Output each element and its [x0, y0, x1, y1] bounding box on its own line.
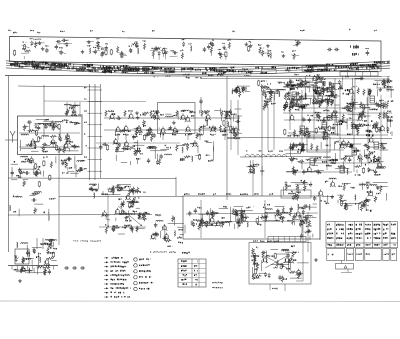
label N213 value [74, 124, 75, 125]
wire [264, 200, 266, 238]
label N399 value [301, 221, 304, 222]
wire [293, 195, 299, 197]
label N519 value [338, 166, 339, 167]
label N559 page [366, 209, 367, 210]
label N551 value [62, 172, 63, 173]
inductor L99 [370, 185, 372, 186]
resistor R193 [305, 131, 307, 138]
resistor R109 [239, 91, 241, 98]
ground G35 [359, 123, 361, 125]
label N459 value [299, 84, 300, 86]
inductor L86 [352, 102, 353, 104]
resistor R189 [289, 158, 296, 160]
wire [16, 271, 20, 273]
label N110 value [62, 64, 65, 66]
inductor L64 [241, 217, 243, 218]
wire [29, 195, 35, 197]
bus wire [200, 78, 390, 81]
page bottom edge [0, 300, 400, 303]
label N133 value [32, 66, 33, 68]
label N331 value [135, 191, 138, 193]
transistor Q15 [181, 115, 185, 119]
label N29 value [135, 46, 136, 47]
label N175 value [230, 67, 233, 69]
inductor L41 [131, 201, 133, 202]
label N205 value [83, 98, 86, 101]
wire [160, 148, 169, 150]
label N589 value [331, 162, 332, 164]
wire [337, 200, 339, 204]
label N461 value [288, 107, 291, 108]
label N258 title [73, 239, 74, 242]
wire [43, 120, 54, 122]
label N470 value [329, 99, 330, 100]
capacitor C125 [333, 111, 335, 113]
wire [390, 88, 392, 98]
label N103 value [139, 68, 140, 70]
resistor R92 [107, 188, 114, 190]
label N365 value [248, 172, 251, 173]
label N631 value [326, 224, 329, 226]
IF transformer T8 [374, 142, 379, 149]
label N542 value [332, 124, 335, 125]
diode D24 [239, 222, 241, 223]
wire [221, 115, 223, 121]
label N115 value [125, 67, 126, 69]
label N388 value [234, 214, 235, 215]
label N392 value [246, 207, 247, 208]
transistor Q6 [51, 140, 55, 144]
label N109 value [99, 66, 102, 68]
label N433 legend [111, 292, 112, 294]
label N562 value [289, 88, 292, 90]
capacitor C80 [287, 253, 289, 255]
wire [31, 150, 39, 152]
wire [321, 89, 337, 91]
bus wire [6, 66, 390, 73]
resistor R179 [376, 127, 378, 131]
resistor R62 [199, 126, 201, 133]
transistor Q63 [377, 163, 381, 167]
label N496 value [288, 135, 289, 136]
label N591 value [333, 159, 334, 161]
wire [31, 260, 33, 265]
label N280 value [189, 112, 192, 114]
label N79 value [104, 70, 105, 72]
wire rung [88, 135, 103, 137]
capacitor C101 [353, 101, 355, 103]
bus wire [6, 68, 390, 75]
wire [135, 227, 145, 229]
label N498 value [293, 158, 294, 160]
wire [59, 196, 183, 198]
inductor L90 [359, 157, 360, 159]
wire [296, 105, 303, 107]
wire [276, 253, 288, 255]
label N637 value [382, 224, 385, 226]
label N90 value [66, 67, 69, 69]
label N479 value [388, 116, 389, 118]
wire [309, 98, 311, 104]
wire [107, 195, 109, 228]
label N37 value [179, 50, 182, 51]
wire [220, 108, 222, 114]
wire [329, 83, 339, 85]
label N116 value [166, 71, 167, 73]
inductor L48 [264, 101, 266, 102]
transistor Q69 [358, 116, 362, 120]
label N247 value [36, 256, 37, 258]
label N417 value [183, 274, 184, 275]
resistor R218 [328, 116, 330, 120]
wire [301, 218, 303, 226]
label N642 value [356, 228, 357, 230]
wire [294, 214, 296, 219]
label N23 value [92, 47, 95, 48]
transistor Q9 [36, 170, 40, 174]
wire [344, 182, 351, 184]
potentiometer R25 [58, 147, 60, 154]
resistor R99 [131, 201, 133, 208]
label N215 value [67, 141, 68, 142]
inductor L55 [261, 154, 265, 157]
capacitor C75 [290, 206, 292, 208]
label N344 value [105, 224, 106, 225]
terminal block B15 [52, 63, 62, 67]
capacitor C117 [365, 156, 367, 158]
diode D53 [301, 81, 303, 82]
capacitor C149 [299, 214, 301, 216]
label N275 value [233, 134, 234, 135]
label N266 value [123, 134, 124, 135]
wire [226, 76, 228, 200]
transistor Q50 [285, 258, 289, 262]
wire [270, 249, 278, 251]
label N672 name [346, 253, 349, 254]
wire [163, 236, 168, 238]
label N393 value [236, 222, 237, 224]
transistor Q18 [116, 128, 120, 132]
resistor R114 [248, 165, 255, 167]
potentiometer R202 [344, 155, 346, 162]
wire [67, 171, 74, 173]
label N605 value [313, 103, 314, 105]
resistor R236 [357, 129, 359, 136]
transistor Q25 [211, 127, 215, 131]
label N168 value [227, 70, 228, 72]
wire [379, 149, 388, 151]
wire [299, 86, 317, 88]
label N310 value [140, 153, 141, 154]
label N630 value [387, 86, 388, 88]
wire [74, 102, 76, 116]
module divider [372, 222, 374, 248]
diode D3 [97, 45, 99, 46]
bus wire B+ [5, 76, 390, 77]
label N52 HT [349, 45, 352, 48]
inductor L34 [192, 156, 193, 158]
label N363 value [269, 92, 270, 94]
transistor Q58 [358, 155, 362, 159]
wire [287, 259, 289, 272]
label N61 value [246, 72, 247, 74]
label N532 value [325, 181, 326, 183]
wire [68, 148, 70, 152]
label N48 value [281, 51, 282, 52]
capacitor C145 [323, 82, 325, 84]
capacitor C99 [379, 128, 381, 130]
label N581 value [368, 131, 371, 133]
label N400 value [287, 220, 289, 221]
ground G2 [42, 47, 44, 49]
resistor R146 [256, 264, 258, 271]
capacitor C60 [116, 185, 118, 187]
capacitor C38 [155, 111, 157, 113]
wire [175, 177, 177, 196]
label N301 value [174, 130, 177, 131]
potentiometer R46 [20, 267, 22, 274]
label N419 value [180, 279, 183, 280]
resistor R59 [176, 110, 178, 117]
inductor L63 [247, 222, 248, 224]
wire [19, 132, 80, 134]
resistor R162 [303, 104, 310, 106]
wire [342, 77, 344, 81]
label N645 value [383, 229, 384, 231]
label N15 value [38, 39, 39, 40]
label N304 value [229, 132, 230, 133]
resistor R118 [206, 222, 208, 226]
label N1 value [7, 30, 10, 31]
label N436 legend [139, 265, 140, 266]
inductor L110 [279, 91, 280, 93]
label N462 value [301, 98, 302, 100]
wire [376, 90, 378, 97]
wire [213, 141, 215, 151]
label N330 value [116, 190, 119, 192]
wire [290, 134, 388, 136]
label N14 value [23, 42, 24, 43]
wire [95, 46, 103, 48]
cable rail [94, 84, 96, 180]
label N107 value [130, 67, 131, 69]
inductor L29 [73, 105, 75, 106]
label N295 value [128, 130, 130, 132]
resistor R191 [316, 145, 318, 152]
wire [374, 80, 392, 82]
label N335 value [120, 203, 123, 204]
label N208 value [84, 133, 85, 134]
transistor Q65 [331, 182, 335, 186]
IF transformer T7 [352, 148, 357, 155]
inductor L83 [322, 100, 324, 101]
wire [225, 56, 227, 60]
wire [20, 270, 32, 272]
label N182 value [45, 62, 46, 64]
IF transformer T9 [340, 166, 345, 173]
wire [341, 272, 352, 274]
wire [195, 155, 201, 157]
capacitor C12 [173, 52, 175, 54]
wire [66, 102, 68, 116]
wire [319, 101, 321, 108]
table row line [178, 272, 206, 274]
wire [326, 100, 328, 170]
label N398 value [300, 220, 301, 221]
label N196 value [165, 76, 168, 77]
label N185 value [142, 68, 143, 70]
resistor R80 [187, 144, 189, 151]
connector cell [283, 237, 285, 242]
label N129 value [214, 70, 215, 72]
cable rail [100, 84, 102, 178]
label N212 value [57, 149, 58, 150]
wire [39, 123, 52, 125]
label N217 value [51, 142, 52, 143]
label N480 value [345, 109, 348, 111]
capacitor C2 [56, 41, 58, 43]
label N612 value [364, 120, 365, 122]
wire [312, 165, 318, 167]
ground G15 [173, 121, 175, 123]
terminal block B4 [73, 64, 83, 68]
wire [313, 91, 315, 105]
label N242 value [26, 259, 27, 260]
label N314 value [205, 141, 206, 142]
resistor R170 [386, 102, 388, 109]
wire [200, 200, 202, 238]
label N464 value [284, 86, 285, 87]
wire [289, 80, 291, 130]
label N239 value [14, 211, 15, 213]
wire [34, 122, 54, 124]
label N609 value [324, 101, 327, 102]
resistor R126 [240, 210, 242, 217]
bus wire [6, 61, 390, 68]
wire [26, 161, 31, 163]
diode D21 [193, 222, 195, 223]
module divider [363, 222, 365, 248]
label N382 value [193, 219, 194, 220]
wire [127, 210, 129, 215]
label N607 value [331, 96, 332, 97]
wire [121, 189, 138, 191]
capacitor C35 [64, 267, 66, 269]
capacitor C46 [235, 120, 237, 122]
transistor Q29 [114, 140, 118, 144]
label N585 value [300, 150, 303, 152]
label N448 value [291, 259, 292, 260]
label N97 value [22, 63, 24, 65]
label N590 value [328, 159, 331, 161]
legend symbol D33 [106, 287, 109, 289]
inductor L96 [359, 185, 361, 186]
label N598 value [347, 89, 348, 91]
label N271 value [185, 134, 186, 136]
wire [347, 269, 349, 273]
resistor R56 [105, 110, 107, 117]
capacitor C57 [148, 158, 150, 160]
label N315 value [207, 160, 210, 162]
diode D50 [292, 102, 294, 103]
wire [266, 89, 284, 91]
label N68 value [61, 65, 62, 67]
wire [52, 143, 54, 147]
resistor R15 [181, 52, 183, 59]
resistor R42 [43, 161, 45, 165]
label N132 value [321, 69, 322, 71]
label N256 value [43, 243, 46, 244]
wire [305, 217, 312, 219]
diode D18 [236, 89, 238, 90]
label N652 value [373, 233, 376, 234]
label N613 value [364, 124, 365, 126]
terminal cell [335, 66, 337, 71]
label N321 value [127, 149, 128, 151]
label N230 value [25, 159, 26, 161]
label N62 value [317, 69, 318, 71]
wire [233, 115, 235, 122]
capacitor C15 [209, 42, 211, 44]
module body [383, 249, 389, 261]
wire [23, 179, 29, 181]
label N50 value [294, 40, 297, 41]
label N425 legend [112, 257, 113, 259]
polarity mark [344, 265, 347, 268]
label N114 value [143, 69, 144, 71]
resistor R107 [165, 240, 172, 242]
label N534 value [321, 200, 322, 201]
label N81 value [20, 62, 23, 64]
inductor L2 [121, 51, 122, 53]
label N374 value [213, 194, 214, 196]
capacitor C52 [116, 148, 118, 150]
terminal block B10 [127, 68, 140, 71]
label N26 value [96, 42, 97, 43]
potentiometer R93 [129, 188, 131, 195]
wire [5, 139, 18, 141]
wire [199, 225, 218, 227]
capacitor C22 [52, 126, 54, 128]
label N311 value [137, 148, 138, 149]
wire [317, 91, 319, 104]
label N379 value [197, 207, 198, 208]
label N680 value [298, 224, 301, 225]
wire [52, 242, 54, 247]
module body [327, 249, 345, 261]
resistor R221 [76, 170, 83, 172]
label N547 value [80, 167, 81, 169]
wire [36, 119, 48, 121]
label N477 value [347, 103, 349, 104]
resistor R33 [38, 137, 40, 141]
capacitor C13 [203, 47, 205, 49]
label N356 value [178, 242, 179, 243]
wire [312, 234, 314, 238]
legend symbol D31 [106, 279, 109, 281]
label N603 value [297, 106, 298, 108]
resistor R143 [274, 254, 276, 258]
transistor Q60 [340, 144, 344, 148]
module divider [381, 222, 383, 248]
terminal row [302, 66, 381, 71]
wire [310, 182, 312, 188]
label N472 value [334, 97, 335, 99]
wire [164, 225, 166, 239]
label N544 value [331, 132, 332, 134]
capacitor C141 [276, 89, 278, 91]
connector cell [272, 237, 274, 242]
